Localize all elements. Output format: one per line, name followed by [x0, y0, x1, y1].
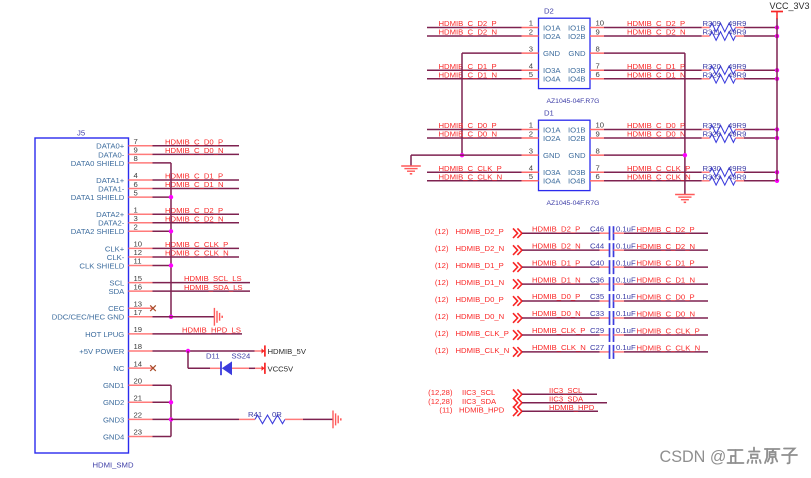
svg-text:2: 2 — [529, 129, 533, 138]
svg-text:HDMIB_C_CLK_N: HDMIB_C_CLK_N — [439, 172, 503, 181]
svg-text:HDMIB_C_D0_N: HDMIB_C_D0_N — [165, 146, 224, 155]
svg-text:22: 22 — [134, 411, 143, 420]
svg-text:18: 18 — [134, 342, 143, 351]
svg-text:HDMIB_C_CLK_N: HDMIB_C_CLK_N — [627, 172, 691, 181]
svg-text:C35: C35 — [590, 292, 604, 301]
svg-text:49R9: 49R9 — [728, 70, 746, 79]
svg-text:(12): (12) — [435, 227, 449, 236]
svg-text:HDMIB_C_D1_N: HDMIB_C_D1_N — [627, 70, 686, 79]
svg-text:HDMIB_D1_P: HDMIB_D1_P — [456, 261, 504, 270]
svg-text:0.1uF: 0.1uF — [616, 292, 636, 301]
svg-text:D1: D1 — [544, 108, 554, 117]
svg-text:DATA0 SHIELD: DATA0 SHIELD — [71, 159, 125, 168]
svg-text:C36: C36 — [590, 275, 604, 284]
svg-text:HDMIB_C_CLK_P: HDMIB_C_CLK_P — [637, 327, 700, 336]
svg-text:IO4B: IO4B — [568, 177, 586, 186]
svg-text:0.1uF: 0.1uF — [616, 275, 636, 284]
svg-text:2: 2 — [529, 27, 533, 36]
svg-text:DATA2 SHIELD: DATA2 SHIELD — [71, 227, 125, 236]
svg-text:21: 21 — [134, 394, 143, 403]
svg-text:0.1uF: 0.1uF — [616, 309, 636, 318]
svg-text:DATA1 SHIELD: DATA1 SHIELD — [71, 193, 125, 202]
svg-text:3: 3 — [529, 44, 533, 53]
svg-text:D2: D2 — [544, 6, 554, 15]
svg-text:SS24: SS24 — [232, 352, 252, 361]
svg-text:GND2: GND2 — [103, 398, 124, 407]
svg-text:HDMIB_C_D1_P: HDMIB_C_D1_P — [637, 259, 695, 268]
svg-text:HDMIB_D0_N: HDMIB_D0_N — [532, 309, 581, 318]
svg-text:(12): (12) — [435, 295, 449, 304]
svg-text:HDMIB_C_D2_N: HDMIB_C_D2_N — [637, 242, 696, 251]
svg-text:0.1uF: 0.1uF — [616, 258, 636, 267]
svg-text:HDMIB_C_D1_N: HDMIB_C_D1_N — [637, 276, 696, 285]
svg-text:(12): (12) — [435, 312, 449, 321]
svg-text:IO2A: IO2A — [543, 32, 561, 41]
svg-text:IO4A: IO4A — [543, 177, 561, 186]
svg-text:HDMIB_D0_N: HDMIB_D0_N — [456, 312, 505, 321]
svg-text:8: 8 — [596, 146, 600, 155]
svg-text:AZ1045-04F.R7G: AZ1045-04F.R7G — [547, 200, 600, 207]
svg-text:CLK SHIELD: CLK SHIELD — [79, 261, 124, 270]
svg-text:HDMIB_SDA_LS: HDMIB_SDA_LS — [184, 283, 243, 292]
svg-text:GND3: GND3 — [103, 415, 124, 424]
svg-text:HDMIB_D2_N: HDMIB_D2_N — [456, 244, 505, 253]
svg-text:DDC/CEC/HEC GND: DDC/CEC/HEC GND — [52, 313, 125, 322]
svg-text:0.1uF: 0.1uF — [616, 241, 636, 250]
svg-text:(12): (12) — [435, 329, 449, 338]
svg-text:3: 3 — [529, 146, 533, 155]
svg-text:IO4A: IO4A — [543, 75, 561, 84]
svg-text:CSDN @: CSDN @ — [660, 448, 727, 466]
svg-text:19: 19 — [134, 325, 143, 334]
svg-text:6: 6 — [596, 70, 600, 79]
svg-text:HDMIB_C_D0_N: HDMIB_C_D0_N — [637, 310, 696, 319]
svg-text:11: 11 — [134, 257, 142, 266]
svg-text:HDMIB_CLK_N: HDMIB_CLK_N — [456, 346, 510, 355]
svg-text:HDMIB_C_D0_N: HDMIB_C_D0_N — [627, 130, 686, 139]
svg-text:R324: R324 — [703, 70, 722, 79]
svg-text:GND1: GND1 — [103, 381, 124, 390]
svg-text:GND: GND — [543, 151, 561, 160]
svg-text:HDMIB_D0_P: HDMIB_D0_P — [532, 292, 580, 301]
svg-text:R333: R333 — [703, 172, 721, 181]
svg-text:R311: R311 — [703, 28, 721, 37]
svg-text:D11: D11 — [206, 352, 220, 361]
svg-text:HDMIB_CLK_P: HDMIB_CLK_P — [456, 329, 509, 338]
svg-text:(11): (11) — [439, 405, 453, 414]
svg-text:R41: R41 — [248, 410, 262, 419]
svg-text:HDMIB_C_D1_N: HDMIB_C_D1_N — [165, 180, 224, 189]
svg-text:C46: C46 — [590, 224, 604, 233]
svg-text:23: 23 — [134, 428, 143, 437]
svg-text:HDMIB_D1_N: HDMIB_D1_N — [456, 278, 505, 287]
svg-text:HDMIB_HPD: HDMIB_HPD — [459, 405, 505, 414]
svg-text:R328: R328 — [703, 130, 721, 139]
svg-text:HDMIB_C_D2_N: HDMIB_C_D2_N — [627, 28, 686, 37]
svg-text:SDA: SDA — [108, 287, 125, 296]
svg-text:GND: GND — [543, 49, 561, 58]
svg-text:IO2B: IO2B — [568, 32, 586, 41]
svg-text:(12): (12) — [435, 261, 449, 270]
svg-text:HDMIB_HPD_LS: HDMIB_HPD_LS — [182, 326, 241, 335]
svg-text:HDMIB_C_D0_N: HDMIB_C_D0_N — [439, 130, 498, 139]
svg-text:0R: 0R — [272, 410, 282, 419]
svg-text:HDMIB_D1_N: HDMIB_D1_N — [532, 275, 581, 284]
svg-text:6: 6 — [596, 172, 600, 181]
svg-text:J5: J5 — [77, 129, 85, 138]
svg-text:HDMIB_D2_P: HDMIB_D2_P — [532, 224, 580, 233]
svg-text:C44: C44 — [590, 241, 605, 250]
svg-text:HDMIB_D0_P: HDMIB_D0_P — [456, 295, 504, 304]
svg-text:C27: C27 — [590, 343, 604, 352]
svg-text:14: 14 — [134, 359, 143, 368]
svg-text:49R9: 49R9 — [728, 172, 746, 181]
svg-text:GND4: GND4 — [103, 432, 125, 441]
svg-text:HDMIB_C_D0_P: HDMIB_C_D0_P — [637, 293, 695, 302]
svg-text:C40: C40 — [590, 258, 604, 267]
svg-text:HDMIB_D2_P: HDMIB_D2_P — [456, 227, 504, 236]
svg-text:49R9: 49R9 — [728, 28, 746, 37]
svg-text:AZ1045-04F.R7G: AZ1045-04F.R7G — [547, 98, 600, 105]
svg-text:8: 8 — [596, 44, 600, 53]
svg-text:HDMIB_C_D2_P: HDMIB_C_D2_P — [637, 225, 695, 234]
svg-text:HDMIB_C_D1_N: HDMIB_C_D1_N — [439, 70, 498, 79]
svg-text:5: 5 — [529, 70, 533, 79]
svg-text:+5V POWER: +5V POWER — [79, 347, 125, 356]
svg-text:HDMIB_CLK_N: HDMIB_CLK_N — [532, 343, 586, 352]
svg-text:HDMIB_CLK_P: HDMIB_CLK_P — [532, 326, 585, 335]
svg-text:(12): (12) — [435, 244, 449, 253]
svg-text:(12): (12) — [435, 346, 449, 355]
svg-text:HDMIB_C_D2_N: HDMIB_C_D2_N — [165, 214, 224, 223]
svg-text:VCC5V: VCC5V — [268, 364, 295, 373]
svg-text:C33: C33 — [590, 309, 604, 318]
svg-text:16: 16 — [134, 282, 143, 291]
svg-text:20: 20 — [134, 376, 143, 385]
svg-text:17: 17 — [134, 308, 143, 317]
svg-text:C29: C29 — [590, 326, 604, 335]
svg-text:GND: GND — [568, 151, 586, 160]
svg-text:0.1uF: 0.1uF — [616, 343, 636, 352]
svg-text:IO4B: IO4B — [568, 75, 586, 84]
svg-text:NC: NC — [113, 364, 125, 373]
svg-text:5: 5 — [529, 172, 533, 181]
svg-text:0.1uF: 0.1uF — [616, 326, 636, 335]
svg-text:HOT LPUG: HOT LPUG — [85, 330, 124, 339]
svg-text:HDMIB_5V: HDMIB_5V — [268, 347, 307, 356]
svg-text:HDMIB_C_CLK_N: HDMIB_C_CLK_N — [637, 344, 701, 353]
svg-text:IO2A: IO2A — [543, 134, 561, 143]
svg-text:(12): (12) — [435, 278, 449, 287]
svg-text:HDMIB_C_D2_N: HDMIB_C_D2_N — [439, 28, 498, 37]
svg-text:2: 2 — [134, 223, 138, 232]
svg-text:9: 9 — [596, 129, 600, 138]
svg-text:HDMIB_D1_P: HDMIB_D1_P — [532, 258, 580, 267]
svg-text:9: 9 — [596, 27, 600, 36]
svg-text:VCC_3V3: VCC_3V3 — [770, 1, 810, 11]
svg-text:0.1uF: 0.1uF — [616, 224, 636, 233]
svg-text:5: 5 — [134, 188, 138, 197]
svg-text:HDMIB_C_CLK_N: HDMIB_C_CLK_N — [165, 249, 229, 258]
svg-text:HDMIB_D2_N: HDMIB_D2_N — [532, 241, 581, 250]
svg-text:49R9: 49R9 — [728, 130, 746, 139]
svg-text:HDMIB_HPD: HDMIB_HPD — [549, 403, 595, 412]
svg-text:8: 8 — [134, 154, 138, 163]
svg-text:GND: GND — [568, 49, 586, 58]
svg-text:HDMI_SMD: HDMI_SMD — [93, 461, 134, 470]
svg-text:IO2B: IO2B — [568, 134, 586, 143]
